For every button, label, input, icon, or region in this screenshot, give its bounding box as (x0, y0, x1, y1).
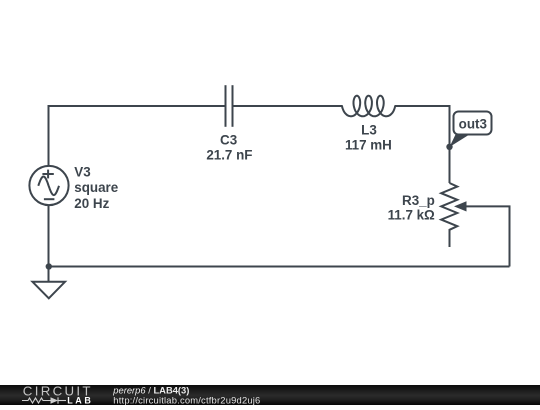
voltage source V3 plus sign (42, 170, 53, 179)
wiper arrow of R3_p (454, 201, 467, 211)
inductor L3 coil (342, 96, 395, 117)
svg-text:21.7 nF: 21.7 nF (206, 147, 252, 162)
wire: L3 to corner and down to R3_p (395, 106, 449, 183)
node junction dot at ground (46, 263, 52, 269)
wire: wiper to right rail (465, 206, 510, 266)
wire: source bottom to ground (48, 205, 50, 282)
svg-text:http://circuitlab.com/ctfbr2u9: http://circuitlab.com/ctfbr2u9d2uj6 (113, 394, 260, 405)
voltage source V3 sine (38, 177, 59, 196)
wire: C3 to L3 (233, 105, 343, 107)
net label out3 tail (450, 134, 472, 148)
node junction dot at out3 (446, 144, 452, 150)
capacitor C3 (226, 85, 233, 127)
svg-text:out3: out3 (459, 117, 487, 132)
svg-text:117 mH: 117 mH (345, 138, 392, 153)
logo diode triangle (51, 397, 59, 403)
voltage source V3 minus sign (44, 198, 55, 200)
svg-text:square: square (74, 180, 118, 195)
potentiometer R3_p zigzag body (441, 183, 457, 247)
ground symbol triangle (33, 282, 66, 299)
svg-text:V3: V3 (74, 165, 90, 180)
wire: bottom rail (49, 266, 510, 268)
footer bar (0, 385, 540, 405)
svg-text:20 Hz: 20 Hz (74, 196, 109, 211)
svg-text:R3_p: R3_p (402, 193, 435, 208)
svg-text:L3: L3 (361, 122, 377, 137)
voltage source V3 circle (29, 166, 68, 205)
svg-text:LAB: LAB (67, 395, 93, 405)
svg-text:11.7 kΩ: 11.7 kΩ (388, 207, 435, 222)
logo wire with resistor and diode (22, 397, 66, 403)
svg-text:C3: C3 (220, 132, 237, 147)
wire top-left: source top to C3 left plate (49, 106, 226, 166)
net label out3 bubble box (454, 112, 492, 135)
